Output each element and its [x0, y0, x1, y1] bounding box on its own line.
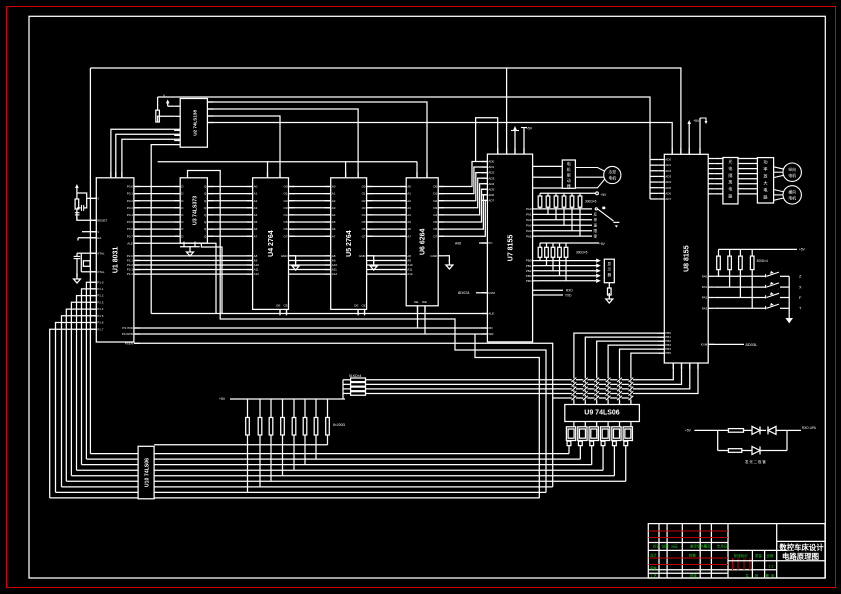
- I/O expander U8 8155: [658, 148, 714, 369]
- svg-text:U5 2764: U5 2764: [346, 230, 353, 257]
- svg-text:A11: A11: [254, 268, 259, 272]
- wire U2 pin to U8 top (y=122.5): [207, 123, 672, 155]
- svg-text:TXD: TXD: [565, 293, 572, 297]
- svg-text:A2: A2: [254, 199, 258, 203]
- svg-text:A8: A8: [407, 254, 411, 258]
- svg-text:限: 限: [594, 228, 598, 233]
- svg-text:电: 电: [728, 186, 732, 192]
- ground at U6: [444, 256, 453, 269]
- wire RD rail U1 P3.7 to U7: [134, 306, 488, 328]
- svg-text:WE: WE: [422, 300, 427, 304]
- wire WR rail U1 P3.6 to U7: [134, 306, 488, 334]
- svg-text:冷却: 冷却: [609, 170, 617, 175]
- wire U2-Y2 to U4 PGM pin: [207, 116, 280, 178]
- svg-text:器: 器: [608, 273, 612, 277]
- svg-text:A11: A11: [407, 268, 412, 272]
- svg-text:O7: O7: [362, 234, 366, 238]
- svg-text:P2.1: P2.1: [127, 259, 134, 263]
- EPROM U5 2764: [325, 172, 373, 316]
- wire bottom bus 9 lines to U9 drivers: [50, 454, 626, 498]
- svg-text:A0: A0: [332, 185, 336, 189]
- resistor network RN1 200ohm x8 pull-ups: [154, 397, 345, 492]
- wire U2 A-inputs to U1 P0 top pins: [111, 129, 180, 178]
- svg-text:OE: OE: [414, 300, 418, 304]
- svg-text:P2.2: P2.2: [127, 263, 134, 267]
- svg-text:A9: A9: [332, 259, 336, 263]
- svg-text:P2.3: P2.3: [127, 268, 134, 272]
- svg-text:AD0: AD0: [665, 158, 671, 162]
- svg-text:A5: A5: [407, 220, 411, 224]
- svg-text:P0.2: P0.2: [127, 199, 134, 203]
- svg-text:速: 速: [594, 223, 598, 228]
- svg-text:批准: 批准: [690, 573, 697, 578]
- title block grid: [648, 524, 825, 578]
- resistor network RN4 300ohm x5: [538, 242, 605, 281]
- svg-text:P3.7RD: P3.7RD: [122, 326, 133, 330]
- resistor R1 pull-up at U2: [156, 97, 174, 122]
- diode D3: [752, 447, 787, 455]
- EPROM U4 2764: [247, 172, 295, 316]
- svg-text:电机: 电机: [788, 173, 796, 178]
- power +5V arrow reset: [75, 184, 79, 199]
- svg-text:O3: O3: [283, 206, 287, 210]
- svg-text:A0: A0: [254, 185, 258, 189]
- svg-text:AD3: AD3: [665, 175, 671, 179]
- svg-text:RXD UPA: RXD UPA: [802, 426, 817, 430]
- svg-text:审核: 审核: [650, 565, 657, 570]
- svg-text:IO/M: IO/M: [701, 343, 708, 347]
- svg-text:RXD: RXD: [566, 289, 573, 293]
- svg-text:CE: CE: [284, 304, 288, 308]
- wire +5V feed indicator: [685, 428, 728, 450]
- svg-text:P1.2: P1.2: [97, 294, 104, 298]
- svg-text:器: 器: [567, 183, 571, 188]
- svg-text:纵向: 纵向: [788, 167, 796, 172]
- I/O expander U7 8155: [481, 148, 538, 342]
- capacitor C1 reset: [77, 198, 87, 211]
- svg-text:P1.6: P1.6: [97, 321, 104, 325]
- svg-text:D6: D6: [433, 227, 437, 231]
- svg-text:U8 8155: U8 8155: [684, 245, 691, 272]
- wire crossover fifth line: [553, 397, 631, 399]
- svg-text:机: 机: [567, 166, 571, 172]
- svg-text:A10: A10: [254, 263, 260, 267]
- wire U3 OE rail via x=220: [188, 171, 547, 493]
- svg-text:A3: A3: [332, 206, 336, 210]
- svg-text:A9: A9: [254, 259, 258, 263]
- svg-text:PB3: PB3: [526, 274, 532, 278]
- wire net P1.0 top run to U7/U8 (y=68): [90, 68, 681, 154]
- svg-text:A12: A12: [407, 272, 413, 276]
- op-amp U1 microcontroller 8031: [90, 172, 140, 346]
- value label LED: [745, 459, 766, 464]
- svg-text:P1.4: P1.4: [97, 307, 104, 311]
- svg-text:路: 路: [728, 193, 732, 199]
- svg-text:功: 功: [763, 159, 767, 166]
- svg-text:D7: D7: [433, 234, 437, 238]
- svg-text:零: 零: [594, 233, 598, 238]
- svg-text:PA3: PA3: [702, 306, 708, 310]
- svg-text:O6: O6: [283, 227, 287, 231]
- svg-text:AD3: AD3: [488, 176, 494, 180]
- wire VCC rail to memory chips (y=161.7): [158, 162, 417, 178]
- svg-text:电路原理图: 电路原理图: [782, 552, 819, 561]
- pin label OE U6: [414, 300, 427, 304]
- svg-text:O3: O3: [362, 206, 366, 210]
- svg-text:P0.7: P0.7: [127, 234, 134, 238]
- optocoupler box at U8: [723, 158, 738, 204]
- svg-text:PA3: PA3: [526, 223, 532, 227]
- resistor R7 indicator2: [718, 449, 752, 453]
- svg-text:AD1: AD1: [665, 163, 671, 167]
- svg-text:P1.5: P1.5: [97, 314, 104, 318]
- net label 8D031 at U7 IO/M: [458, 290, 487, 295]
- svg-text:AD6: AD6: [488, 193, 494, 197]
- svg-text:300Ω×4: 300Ω×4: [757, 259, 769, 263]
- wire keyboard lines U8 PB to 51K pull-ups: [366, 363, 699, 393]
- svg-text:大: 大: [763, 180, 767, 187]
- wire indicator output: [787, 426, 817, 451]
- svg-text:D1: D1: [433, 192, 437, 196]
- svg-text:U9 74LS06: U9 74LS06: [584, 410, 620, 417]
- svg-text:设计: 设计: [650, 553, 657, 558]
- svg-text:分区: 分区: [671, 544, 678, 549]
- power +5V arrow at U7: [511, 126, 519, 154]
- svg-text:O0: O0: [283, 185, 287, 189]
- wire U1 ALE pin drop: [134, 243, 216, 313]
- latch U3 74LS373: [174, 178, 213, 243]
- svg-text:A3: A3: [407, 206, 411, 210]
- svg-text:P0.0: P0.0: [127, 185, 134, 189]
- svg-text:300Ω×5: 300Ω×5: [576, 251, 588, 255]
- svg-text:P1.7: P1.7: [97, 327, 104, 331]
- svg-text:电: 电: [728, 165, 732, 171]
- net label A08 at U7 PC: [455, 242, 487, 246]
- svg-text:U10 74LS06: U10 74LS06: [145, 458, 151, 487]
- pin label OE U5: [354, 304, 366, 308]
- svg-text:A1: A1: [254, 192, 258, 196]
- power +5V stub at U7: [521, 127, 533, 155]
- power amp box at U8: [757, 158, 773, 203]
- wire U7 PB0-PB4 lines to display: [539, 259, 600, 282]
- svg-text:PA0: PA0: [702, 274, 708, 278]
- svg-text:反: 反: [594, 212, 598, 217]
- svg-text:PA0: PA0: [526, 207, 532, 211]
- diode D1: [752, 426, 766, 434]
- svg-text:A7: A7: [332, 234, 336, 238]
- svg-text:横向: 横向: [788, 190, 796, 195]
- svg-text:EA: EA: [97, 236, 101, 240]
- motor M2 longitudinal: [774, 163, 802, 181]
- svg-text:A10: A10: [332, 263, 338, 267]
- crystal Y1 at U1: [74, 253, 97, 283]
- decoder U2 74LS138: [174, 99, 213, 148]
- wire PSEN line under U7: [134, 343, 553, 487]
- svg-text:PA1: PA1: [702, 285, 708, 289]
- svg-text:+5V: +5V: [219, 397, 226, 401]
- net label RXD at U7: [539, 289, 574, 293]
- switch bank limit switches: [714, 271, 802, 311]
- svg-text:PA4: PA4: [526, 229, 532, 233]
- ground at U5: [370, 256, 377, 270]
- svg-text:PA2: PA2: [702, 296, 708, 300]
- svg-text:XTAL: XTAL: [97, 251, 105, 255]
- wire U8 to optocoupler: [714, 159, 723, 194]
- wire U7 PA0-PA5 lines: [539, 209, 598, 239]
- svg-text:O1: O1: [283, 192, 287, 196]
- resistor R6 indicator: [728, 429, 752, 433]
- svg-text:CE: CE: [362, 304, 366, 308]
- svg-text:D2: D2: [433, 199, 437, 203]
- svg-text:AD6: AD6: [665, 191, 671, 195]
- wire U2-Y1 to U5 PGM pin: [207, 109, 358, 178]
- svg-text:AD0: AD0: [488, 160, 494, 164]
- svg-text:动: 动: [567, 177, 571, 183]
- svg-text:PB1: PB1: [526, 264, 532, 268]
- svg-text:RESET: RESET: [97, 218, 107, 222]
- svg-text:IO/M: IO/M: [488, 291, 495, 295]
- svg-text:工艺: 工艺: [650, 573, 657, 578]
- svg-text:光: 光: [728, 158, 732, 164]
- wire crossover junction hops: [572, 378, 634, 401]
- svg-text:300Ω×6: 300Ω×6: [585, 200, 597, 204]
- svg-text:D0: D0: [433, 185, 437, 189]
- svg-text:A7: A7: [254, 234, 258, 238]
- wire U8 PB0-PB5 to U9 inputs: [574, 333, 664, 404]
- diode D2 reverse: [768, 426, 787, 434]
- motor M3 transverse: [774, 186, 802, 204]
- transistor driver array under U9: [566, 422, 632, 482]
- svg-text:O5: O5: [283, 220, 287, 224]
- svg-text:XTAL: XTAL: [97, 270, 105, 274]
- svg-text:P0.6: P0.6: [127, 227, 134, 231]
- power +5V arrow at U2: [163, 94, 174, 106]
- svg-text:ALE: ALE: [488, 312, 494, 316]
- svg-text:P1.1: P1.1: [97, 287, 104, 291]
- svg-text:+5V: +5V: [601, 193, 608, 197]
- svg-text:GND: GND: [281, 254, 289, 258]
- svg-text:A1: A1: [332, 192, 336, 196]
- svg-text:AD4: AD4: [488, 182, 494, 186]
- svg-text:V: V: [97, 197, 99, 201]
- svg-text:WR: WR: [488, 332, 494, 336]
- svg-text:标记: 标记: [653, 544, 660, 549]
- svg-text:GND: GND: [431, 254, 439, 258]
- svg-text:A5: A5: [332, 220, 336, 224]
- svg-text:A8: A8: [254, 254, 258, 258]
- svg-text:O4: O4: [283, 213, 287, 217]
- ground at switch bank: [785, 276, 793, 323]
- wire U1 VCC2 pin stub: [82, 231, 96, 233]
- ground at U4: [292, 256, 299, 270]
- svg-text:A12: A12: [254, 272, 260, 276]
- svg-text:隔: 隔: [728, 172, 732, 178]
- svg-text:AD2: AD2: [665, 169, 671, 173]
- svg-text:PB0: PB0: [526, 259, 532, 263]
- value label 8x200: [333, 423, 346, 427]
- capacitor C2 reset: [75, 213, 80, 221]
- wire U4 control drops: [280, 309, 287, 313]
- svg-text:O2: O2: [362, 199, 366, 203]
- svg-text:阶段标记: 阶段标记: [734, 553, 748, 558]
- svg-text:ALE: ALE: [127, 241, 133, 245]
- wire optocoupler to power amp: [738, 159, 757, 194]
- svg-text:1:1: 1:1: [769, 564, 774, 568]
- wire address bus A8-A12 (U1 P2 to memories): [134, 256, 406, 274]
- wire U2-Y0 to U6 PGM pin: [207, 102, 427, 178]
- svg-text:A6: A6: [254, 227, 258, 231]
- svg-text:A11: A11: [332, 268, 337, 272]
- svg-text:数控车床设计: 数控车床设计: [779, 543, 824, 552]
- svg-text:O1: O1: [362, 192, 366, 196]
- ground at U3: [180, 242, 200, 256]
- svg-text:率: 率: [763, 166, 767, 173]
- svg-text:PA2: PA2: [526, 218, 532, 222]
- svg-text:显: 显: [608, 262, 612, 266]
- driver box stepper at U7: [562, 160, 575, 188]
- svg-text:示: 示: [608, 268, 612, 272]
- svg-text:年月日: 年月日: [717, 544, 727, 549]
- svg-text:AD7: AD7: [488, 198, 494, 202]
- svg-text:A08: A08: [455, 242, 461, 246]
- wire U1 P1 port bundle to left bus columns: [50, 282, 97, 498]
- svg-text:U3 74LS373: U3 74LS373: [192, 196, 198, 225]
- svg-text:P1.3: P1.3: [97, 300, 104, 304]
- svg-text:PSEN: PSEN: [125, 341, 133, 345]
- svg-text:PB4: PB4: [526, 279, 532, 283]
- inverter U9 74LS06: [565, 405, 640, 422]
- svg-text:A4: A4: [254, 213, 258, 217]
- svg-text:驱: 驱: [567, 172, 571, 177]
- wire left column from top net down (x=90.4): [89, 68, 91, 454]
- svg-text:U2 74LS138: U2 74LS138: [192, 110, 197, 136]
- svg-text:A2: A2: [332, 199, 336, 203]
- svg-text:AD7: AD7: [665, 197, 671, 201]
- svg-text:O5: O5: [362, 220, 366, 224]
- svg-text:质量: 质量: [755, 553, 762, 558]
- resistor network RN3 300ohm x6: [538, 192, 607, 236]
- svg-text:A6: A6: [407, 227, 411, 231]
- svg-text:D4: D4: [433, 213, 437, 217]
- svg-text:P0.1: P0.1: [127, 192, 134, 196]
- svg-text:GND: GND: [359, 254, 367, 258]
- svg-text:A0: A0: [407, 185, 411, 189]
- motor M1 cooling: [575, 166, 621, 187]
- wire U7 PA to driver box: [539, 166, 563, 188]
- resistor network RN5 300ohm x4: [717, 248, 806, 309]
- wire U8 AD bus stubs: [650, 160, 658, 199]
- svg-text:V: V: [97, 230, 99, 234]
- svg-text:AD2: AD2: [488, 171, 494, 175]
- svg-text:PB2: PB2: [526, 269, 532, 273]
- svg-text:电机: 电机: [788, 196, 796, 201]
- svg-text:+5V: +5V: [526, 127, 533, 131]
- svg-text:PB5: PB5: [665, 351, 671, 355]
- bus driver U10 74LS06: [138, 446, 154, 499]
- svg-text:A10: A10: [407, 263, 413, 267]
- resistor network RN2 51K x4: [343, 374, 366, 399]
- svg-text:8D03L: 8D03L: [746, 342, 759, 347]
- power +5V arrow at U8: [687, 119, 700, 154]
- svg-text:P0.5: P0.5: [127, 220, 134, 224]
- svg-text:A3: A3: [254, 206, 258, 210]
- svg-text:PA5: PA5: [526, 234, 532, 238]
- svg-text:处数: 处数: [662, 544, 669, 549]
- svg-text:A8: A8: [332, 254, 336, 258]
- svg-text:+5V: +5V: [693, 119, 700, 123]
- wire U2 select to ALE rail: [151, 145, 180, 314]
- svg-text:A9: A9: [407, 259, 411, 263]
- svg-text:A4: A4: [332, 213, 336, 217]
- svg-text:发 光 二 极 管: 发 光 二 极 管: [745, 459, 766, 464]
- svg-text:停: 停: [594, 217, 598, 222]
- net label 8D03L at U8: [708, 342, 758, 347]
- svg-text:PA1: PA1: [526, 212, 532, 216]
- svg-text:P3.6WR: P3.6WR: [122, 332, 134, 336]
- svg-text:A7: A7: [407, 234, 411, 238]
- svg-text:AD5: AD5: [665, 186, 671, 190]
- svg-text:P2.0: P2.0: [127, 254, 134, 258]
- svg-text:O7: O7: [283, 234, 287, 238]
- wire ALE rail to U7: [151, 313, 487, 315]
- pin label OE U4: [276, 304, 288, 308]
- wire +5V distribution (y=97) to U8 AD bus: [158, 97, 650, 199]
- svg-text:A6: A6: [332, 227, 336, 231]
- svg-text:U6 6264: U6 6264: [420, 228, 427, 255]
- svg-text:P0.4: P0.4: [127, 213, 134, 217]
- wire U5 control drops: [358, 309, 365, 313]
- svg-text:P1.0: P1.0: [97, 280, 104, 284]
- svg-text:U4 2764: U4 2764: [268, 230, 275, 257]
- svg-text:A4: A4: [407, 213, 411, 217]
- svg-text:AD1: AD1: [488, 165, 494, 169]
- resistor R2 reset: [75, 199, 96, 220]
- svg-text:+5V: +5V: [599, 242, 606, 246]
- wire U3 LE drop: [201, 242, 222, 314]
- svg-text:AD4: AD4: [665, 180, 671, 184]
- svg-text:比例: 比例: [767, 553, 774, 558]
- svg-text:O4: O4: [362, 213, 366, 217]
- svg-text:D5: D5: [433, 220, 437, 224]
- svg-text:校核: 校核: [689, 553, 696, 558]
- svg-text:+5V: +5V: [685, 428, 692, 432]
- resistor R5 display bias: [606, 283, 613, 303]
- SRAM U6 6264: [400, 172, 444, 312]
- title block annotations: [650, 544, 775, 579]
- svg-text:D3: D3: [433, 206, 437, 210]
- svg-text:8D031: 8D031: [458, 290, 471, 295]
- svg-text:O6: O6: [362, 227, 366, 231]
- svg-text:离: 离: [728, 179, 732, 185]
- svg-text:OE: OE: [354, 304, 358, 308]
- svg-text:OE: OE: [276, 304, 280, 308]
- svg-text:A1: A1: [407, 192, 411, 196]
- svg-text:AD5: AD5: [488, 187, 494, 191]
- timer input hook at U8: [700, 118, 708, 154]
- svg-text:A2: A2: [407, 199, 411, 203]
- display driver box at U7: [604, 259, 614, 283]
- svg-text:U7 8155: U7 8155: [508, 235, 515, 262]
- svg-text:+5V: +5V: [799, 248, 806, 252]
- wire WR branch under U7 to bus: [475, 334, 539, 498]
- svg-text:X: X: [799, 285, 802, 290]
- svg-text:O0: O0: [362, 185, 366, 189]
- wire U1 VCC pin: [77, 193, 96, 198]
- svg-text:电机: 电机: [609, 175, 617, 180]
- wire data bus AD0-AD7 (U1 P0 to U3/U4/U5/U6/U7): [134, 162, 488, 237]
- svg-text:8×200Ω: 8×200Ω: [333, 423, 346, 427]
- title text: [779, 543, 824, 561]
